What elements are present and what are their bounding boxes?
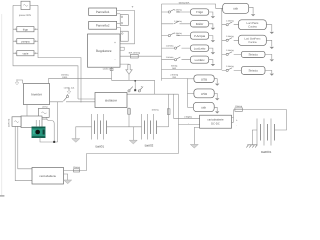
load box P.Acqua (191, 32, 209, 39)
svg-text:100A: 100A (62, 76, 68, 79)
svg-text:isolatore: isolatore (105, 98, 117, 102)
wire bus right drop to isolator (127, 80, 178, 94)
box AC module B (21, 116, 42, 128)
load box LuciBox (191, 56, 209, 63)
ground Batt01 (72, 139, 80, 143)
wire row1 ground (209, 12, 213, 16)
wire usb2 ground (214, 93, 217, 98)
wire pad drop (111, 67, 113, 80)
fuse F3 (167, 109, 170, 115)
ground dcdc (190, 144, 198, 148)
svg-text:1.5mmq: 1.5mmq (226, 19, 234, 22)
fuse F1 (130, 54, 138, 58)
ground row2 (211, 28, 215, 30)
battery Batt01 (92, 114, 107, 140)
pin ticks L3 (15, 52, 35, 54)
ground rowB2 (270, 47, 274, 49)
svg-text:P.Acqua: P.Acqua (194, 34, 205, 38)
wire dcdc output riser (232, 110, 234, 123)
wire dcdc ground (194, 127, 199, 144)
box L3 varie (17, 51, 34, 56)
svg-text:10A: 10A (176, 34, 180, 37)
charger caricabatterie box (32, 168, 64, 185)
wire T1 right (30, 4, 38, 6)
ground rowB4 (270, 74, 274, 76)
wire pcb bottom to junction (40, 138, 58, 142)
ground row3 (211, 40, 215, 42)
svg-text:USB: USB (201, 92, 207, 96)
wire main DC horizontal (49, 78, 155, 80)
wire row3 (162, 35, 191, 37)
wire group B bus (221, 8, 223, 69)
wire inverter to module B (26, 105, 28, 116)
svg-text:Striscia: Striscia (249, 53, 259, 57)
svg-text:Frigo: Frigo (196, 10, 203, 14)
connector bracket J2 (121, 31, 129, 41)
ground row1 (211, 16, 215, 18)
wire L3 stubs (13, 52, 38, 54)
svg-text:pompa: pompa (21, 40, 30, 43)
svg-text:1.5mmq: 1.5mmq (166, 44, 174, 47)
wire row1 (162, 11, 191, 13)
wire battery rail (107, 126, 142, 128)
svg-text:Batt02: Batt02 (145, 144, 154, 148)
svg-text:1.5mmq: 1.5mmq (226, 65, 234, 68)
load box Striscia 2 (241, 66, 265, 74)
wire regulator battery out (120, 55, 162, 57)
wire charger riser (177, 94, 179, 153)
wire T1 left (13, 4, 21, 6)
wire isolator down fuse (128, 108, 130, 127)
load box LuciLetto (191, 45, 209, 51)
fuse F2 (128, 109, 131, 115)
svg-text:50A: 50A (172, 67, 176, 70)
wire socket A down 1 (18, 126, 32, 168)
battery Batt001 (257, 119, 275, 146)
frame corner mark bottom-left (0, 195, 4, 197)
box L2 pompa (17, 39, 34, 44)
svg-text:Inverter: Inverter (31, 93, 43, 97)
wire socket C to junction (47, 117, 54, 142)
svg-text:Pannello2: Pannello2 (96, 24, 110, 28)
svg-text:Striscia: Striscia (249, 69, 259, 73)
fuse F5 (74, 169, 80, 172)
wire Batt02 right rail (157, 126, 169, 128)
svg-text:Batt001: Batt001 (261, 150, 272, 154)
wire row4 (162, 47, 191, 49)
wire AC L into isolator (78, 98, 95, 100)
svg-text:Batt01: Batt01 (95, 145, 104, 149)
load box Luci SottoPens Cucina (239, 35, 267, 45)
wire battery riser fused (168, 94, 170, 127)
wire usb1 ground (214, 79, 217, 84)
regulator Regolatore (88, 34, 121, 67)
wire usb bus (186, 78, 188, 107)
wire usb feed (162, 77, 188, 79)
switch S1 on bus (128, 87, 133, 92)
svg-text:1.5mmq: 1.5mmq (226, 49, 234, 52)
wire rowB1 (222, 24, 239, 26)
wire usb2 stub (187, 92, 194, 94)
svg-text:varie: varie (22, 52, 28, 55)
box DC-DC (200, 115, 232, 128)
ground rowB3 (270, 59, 274, 61)
wire usb top ground (249, 7, 253, 14)
svg-text:Cucina: Cucina (248, 25, 257, 28)
svg-text:-: - (236, 124, 237, 127)
wire left AC bus (13, 5, 78, 99)
svg-text:presa 220V: presa 220V (19, 14, 32, 17)
svg-text:Boiler: Boiler (196, 22, 204, 26)
switch row5 (174, 57, 180, 61)
wire Batt001 left to ground (252, 130, 257, 145)
load box USB1 (194, 75, 214, 83)
load box Frigo (191, 9, 209, 15)
ground row4 (211, 52, 215, 54)
svg-text:20A: 20A (172, 76, 176, 79)
svg-text:LuciLetto: LuciLetto (194, 46, 206, 50)
svg-text:Cucina: Cucina (248, 41, 257, 44)
wire row3 ground (209, 36, 213, 40)
wire charger ground stub (64, 174, 68, 180)
svg-text:-: - (188, 122, 189, 125)
frame border left (1, 14, 3, 195)
switch row4 (174, 45, 180, 49)
wire main 12V bus east (162, 68, 222, 70)
wire L1 stubs (13, 28, 38, 30)
svg-text:caricabatterie: caricabatterie (207, 119, 224, 122)
wire row2 (162, 23, 191, 25)
connector bracket J1 (120, 15, 128, 26)
wire P1 lower output (117, 13, 121, 15)
wire regulator load drop (120, 64, 129, 80)
wire Batt01 left to ground (76, 127, 92, 139)
svg-text:40A 10mmq: 40A 10mmq (128, 52, 140, 55)
fuse F4 (235, 108, 243, 111)
chevron arrow regulator (126, 65, 132, 75)
wire solar riser (120, 10, 135, 43)
load box Boiler (191, 21, 209, 27)
wire row5 ground (209, 60, 213, 64)
panel Pannello2 (89, 21, 117, 29)
wire rail to ground 2 (132, 127, 134, 140)
svg-text:frigo: frigo (23, 28, 29, 31)
wire rowB3 (222, 53, 242, 55)
load box USB2 (194, 89, 214, 98)
panel Pannello1 (89, 8, 117, 15)
node pad A (110, 68, 113, 70)
box T1 presa 220 (21, 1, 30, 9)
load box Luci Pens Cucina (239, 20, 267, 30)
svg-text:1.5mmq: 1.5mmq (174, 20, 182, 23)
load box USB3 (193, 102, 214, 111)
junction dot pcb (53, 141, 55, 143)
wire inverter AC drop (57, 102, 59, 142)
wire rowB4 ground (265, 70, 272, 73)
wire usb3 ground (214, 107, 217, 111)
pin ticks L2 (15, 40, 35, 42)
load box Striscia 1 (241, 51, 265, 57)
ground usb2 (215, 98, 219, 100)
switch row2 (174, 21, 179, 23)
pin ticks L1 (15, 28, 35, 30)
wire group A bus (161, 4, 163, 81)
switch rowB2 (226, 38, 232, 42)
wire dcdc input plus (172, 94, 174, 118)
svg-text:usb: usb (201, 106, 206, 110)
wire usb1 stub (187, 78, 194, 80)
switch rowB3 (226, 52, 232, 56)
svg-text:-: - (115, 57, 116, 61)
battery Batt02 (142, 114, 157, 140)
socket box A (12, 117, 21, 127)
load box usb top (223, 3, 249, 13)
svg-text:Regolatore: Regolatore (96, 49, 112, 53)
switch row1 (168, 9, 174, 13)
wire rowB1 ground (266, 25, 272, 32)
svg-text:usb: usb (233, 7, 238, 11)
inverter U1 (24, 84, 50, 105)
switch S2 on bus (138, 87, 143, 92)
svg-text:1.5mmq: 1.5mmq (166, 56, 174, 59)
svg-text:220V est: 220V est (7, 118, 10, 127)
svg-text:Pannello1: Pannello1 (96, 10, 110, 14)
wire pcb pins top (36, 120, 39, 127)
wire rowB2 (222, 39, 239, 41)
svg-text:10mmq: 10mmq (73, 166, 81, 169)
wire right AC bus (38, 5, 81, 102)
svg-text:10mmq: 10mmq (235, 105, 243, 108)
ground Batt001 hatched (246, 145, 257, 148)
connector stub regulator middle (120, 47, 124, 50)
ground AC inverter (15, 80, 22, 85)
svg-text:DC-DC: DC-DC (211, 123, 220, 126)
wire top bus (162, 4, 223, 8)
wire usb3 stub (187, 106, 193, 108)
ground usb top (251, 14, 255, 16)
box L1 frigo (17, 27, 34, 32)
ground row5 (211, 64, 215, 66)
pcb green module (32, 127, 46, 138)
ground usb1 (215, 84, 219, 86)
svg-text:+: + (132, 5, 134, 9)
wire row2 ground (209, 24, 213, 28)
wire P2 upper output (117, 23, 121, 25)
wire P1 upper output (117, 9, 135, 11)
wire inverter DC drop (48, 78, 50, 83)
switch rowB1 (226, 22, 232, 26)
ground usb3 (215, 111, 219, 113)
ground charger (64, 180, 72, 184)
junction dot center (134, 80, 136, 91)
isolator U2 (95, 93, 127, 108)
wire rowB2 ground (266, 40, 272, 46)
svg-text:6mmq 50A: 6mmq 50A (179, 1, 190, 4)
chevron arrow inverter (67, 89, 71, 94)
svg-text:presa: presa (42, 105, 48, 108)
wire socket A down 2 (15, 126, 32, 180)
wire inverter AC out (50, 101, 96, 103)
switch rowB4 (226, 68, 232, 72)
wire row5 (162, 59, 191, 61)
wire dcdc input minus (178, 124, 199, 126)
svg-text:+: + (114, 41, 116, 45)
wire to Batt001 (234, 110, 287, 130)
wire rowB4 (222, 69, 242, 71)
wire rowB3 ground (265, 54, 272, 59)
svg-text:10A: 10A (176, 11, 180, 14)
svg-text:1.5mmq: 1.5mmq (226, 35, 234, 38)
wire row4 ground (209, 48, 213, 52)
socket box C under inverter (39, 108, 50, 117)
svg-text:10mmq: 10mmq (152, 109, 160, 112)
wire P2 lower output (117, 28, 121, 32)
switch S3 inverter out (63, 94, 68, 101)
ground Batt02 (129, 140, 137, 144)
ground rowB1 (270, 32, 274, 34)
svg-text:caricabatterie: caricabatterie (39, 174, 56, 178)
wire L2 stubs (13, 40, 38, 42)
wire charger output (64, 154, 179, 171)
svg-text:USB: USB (201, 77, 207, 81)
switch row3 (168, 33, 174, 37)
svg-text:LuciBox: LuciBox (195, 58, 206, 62)
